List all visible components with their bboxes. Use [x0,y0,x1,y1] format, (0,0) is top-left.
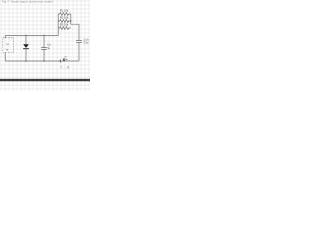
capacitor Cd [41,48,46,50]
photodiode D1 anode wire [25,36,27,45]
svg-text:rs: rs [7,42,10,46]
wire top input net [5,35,58,37]
resistor R3 [58,27,71,30]
node junction R2 right lead [70,20,71,21]
svg-text:Fig 7. Small signal diode amp: Fig 7. Small signal diode amp model [2,0,53,3]
capacitor Cd top wire [43,36,45,48]
page rule bar [0,79,90,81]
svg-text:R2 10k: R2 10k [60,16,69,20]
source vn cross symbol [63,58,65,61]
resistor R2 [58,20,71,23]
capacitor C2 [76,41,82,43]
node junction capacitor Cd bottom [43,60,44,61]
wire bottom return rail [5,60,79,62]
svg-text:33p: 33p [83,41,89,45]
wire right rail of resistor bank [71,14,79,40]
photodiode D1 cathode bar [23,48,29,50]
svg-text:vn: vn [64,56,67,59]
svg-text:t - d: t - d [61,66,70,70]
node junction diode top [25,35,26,36]
svg-text:R1 10k: R1 10k [60,9,69,13]
resistor R1 [58,13,71,16]
source vn dash [66,58,68,60]
node junction capacitor Cd top [43,35,44,36]
wire left rail of resistor bank [57,14,59,36]
wire source bottom stub [4,53,6,62]
source box (dashed) [3,38,14,53]
photodiode D1 cathode wire [25,49,27,61]
photodiode D1 [23,44,29,48]
node junction diode bottom [25,60,26,61]
source vn tick mark [59,60,61,63]
svg-text:R3 10k: R3 10k [60,23,69,27]
capacitor Cd bottom wire [43,49,45,61]
wire stub into source box [4,36,6,39]
svg-text:is: is [6,47,9,51]
wire output branch down [78,43,80,61]
